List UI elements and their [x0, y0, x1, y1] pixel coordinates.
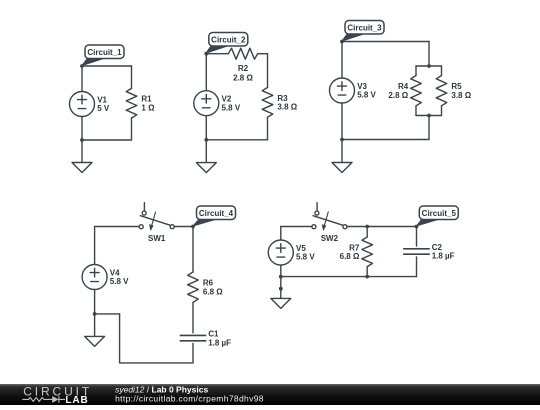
switch SW1 [139, 203, 174, 231]
net label callout Circuit_3 [342, 21, 384, 42]
svg-text:5.8 V: 5.8 V [222, 103, 241, 112]
svg-text:V4: V4 [110, 269, 120, 278]
svg-text:R1: R1 [141, 95, 152, 104]
voltage source V5 [268, 240, 293, 265]
voltage source V1 [70, 92, 95, 117]
wire C5 bottom [281, 276, 417, 278]
svg-text:R2: R2 [238, 64, 249, 73]
wire C5 R7 bottom stub [366, 267, 368, 277]
wire C5 top right [347, 226, 416, 228]
svg-text:1 Ω: 1 Ω [141, 103, 155, 112]
resistor R5 [436, 76, 447, 106]
ground GND5 [271, 289, 291, 309]
wire C3 top [342, 41, 429, 43]
net label callout Circuit_5 [417, 206, 459, 226]
wire C2 left rail [205, 54, 207, 140]
svg-text:V3: V3 [357, 82, 367, 91]
svg-text:6.8 Ω: 6.8 Ω [340, 252, 360, 261]
svg-text:6.8 Ω: 6.8 Ω [203, 287, 223, 296]
svg-text:Circuit_1: Circuit_1 [87, 48, 122, 57]
svg-text:C1: C1 [208, 330, 219, 339]
ground GND2 [196, 140, 216, 173]
node C4 ground junction [93, 312, 97, 316]
svg-text:LAB: LAB [65, 395, 88, 405]
node C5 R7 bottom junction [365, 275, 369, 279]
wire C1 top [82, 65, 132, 67]
node C5 C2 top junction [415, 225, 419, 229]
net label callout Circuit_2 [206, 33, 248, 54]
svg-text:Circuit_3: Circuit_3 [347, 24, 382, 33]
node C1 bottom-left junction [80, 138, 84, 142]
node C2 top-left junction [204, 52, 208, 56]
wire C3 parallel top branch [416, 65, 442, 67]
wire C4 return riser [119, 314, 121, 363]
wire C3 bottom [342, 139, 429, 141]
svg-text:R5: R5 [451, 82, 462, 91]
svg-text:SW2: SW2 [321, 234, 339, 243]
ground GND3 [332, 140, 352, 173]
node C1 top-left junction [80, 64, 84, 68]
svg-text:3.8 Ω: 3.8 Ω [451, 91, 471, 100]
wire C2 right bottom stub [267, 117, 269, 140]
wire C1 left rail [81, 66, 83, 140]
resistor R4 [411, 76, 422, 106]
ground GND1 [72, 140, 92, 173]
node C5 ground junction [279, 287, 283, 291]
wire C4 right rail upper [192, 227, 194, 273]
net label callout Circuit_1 [82, 45, 124, 66]
wire C4 left rail [94, 227, 96, 314]
wire C3 R5 bottom stub [441, 106, 443, 116]
resistor R7 [362, 237, 373, 267]
wire C1 right top stub [131, 66, 133, 88]
ground GND4 [85, 314, 105, 347]
wire C2 bottom [206, 139, 267, 141]
svg-text:V2: V2 [222, 95, 232, 104]
svg-text:C2: C2 [432, 243, 443, 252]
wire C4 R6-C1 link [192, 302, 194, 333]
svg-text:Circuit_4: Circuit_4 [199, 209, 234, 218]
wire C3 parallel bottom branch [416, 115, 442, 117]
svg-text:V5: V5 [296, 244, 306, 253]
wire C1 bottom [82, 139, 132, 141]
svg-text:5 V: 5 V [97, 104, 110, 113]
node C3 parallel bottom junction [427, 114, 431, 118]
wire C4 top right [174, 226, 193, 228]
svg-text:R7: R7 [349, 243, 360, 252]
wire C3 right rail upper [428, 42, 430, 67]
voltage source V3 [330, 78, 355, 103]
voltage source V2 [194, 91, 219, 116]
wire C5 left rail [280, 227, 282, 289]
node C5 left bottom junction [279, 275, 283, 279]
svg-text:R3: R3 [277, 94, 288, 103]
wire C5 R7 top stub [366, 227, 368, 238]
net label callout Circuit_4 [193, 206, 236, 226]
wire C3 R4 top stub [415, 66, 417, 76]
svg-text:5.8 V: 5.8 V [110, 277, 129, 286]
svg-text:5.8 V: 5.8 V [296, 253, 315, 262]
svg-text:Circuit_2: Circuit_2 [211, 36, 246, 45]
node C4 switch-right junction [191, 225, 195, 229]
svg-text:2.8 Ω: 2.8 Ω [388, 91, 408, 100]
node C2 bottom-left junction [204, 138, 208, 142]
CircuitLab logo resistor-diode glyph [22, 396, 65, 403]
wire C4 below C1 [192, 344, 194, 363]
capacitor C2 [403, 249, 430, 254]
svg-text:R6: R6 [203, 279, 214, 288]
resistor R6 [188, 272, 199, 302]
svg-text:2.8 Ω: 2.8 Ω [233, 74, 253, 83]
wire C3 R4 bottom stub [415, 106, 417, 116]
switch SW2 [312, 203, 347, 231]
svg-text:1.8 µF: 1.8 µF [208, 338, 231, 347]
resistor R3 [262, 88, 273, 118]
wire C4 bottom [120, 362, 193, 364]
wire C2 top left [206, 53, 228, 55]
svg-text:1.8 µF: 1.8 µF [432, 252, 455, 261]
node C3 parallel top junction [427, 64, 431, 68]
wire C5 C2 bottom stub [416, 257, 418, 277]
capacitor C1 [180, 335, 207, 340]
svg-text:V1: V1 [97, 96, 107, 105]
wire C2 top right [258, 53, 268, 55]
wire C4 node-riser link [95, 313, 120, 315]
svg-text:http://circuitlab.com/crpemh78: http://circuitlab.com/crpemh78dhv98 [115, 393, 264, 403]
svg-text:3.8 Ω: 3.8 Ω [277, 103, 297, 112]
wire C3 right rail lower [428, 116, 430, 140]
svg-text:Circuit_5: Circuit_5 [422, 209, 457, 218]
wire C3 left rail [341, 42, 343, 140]
wire C5 top left [281, 226, 312, 228]
node C5 R7 top junction [365, 225, 369, 229]
svg-text:5.8 V: 5.8 V [357, 91, 376, 100]
node C3 top-left junction [340, 40, 344, 44]
wire C1 right bottom stub [131, 118, 133, 140]
node C3 bottom-left junction [340, 138, 344, 142]
wire C5 C2 top stub [416, 227, 418, 247]
voltage source V4 [82, 265, 107, 290]
wire C4 top left [95, 226, 140, 228]
wire C3 R5 top stub [441, 66, 443, 76]
resistor R2 [228, 48, 257, 59]
resistor R1 [126, 88, 137, 118]
svg-text:SW1: SW1 [148, 234, 166, 243]
svg-text:R4: R4 [398, 82, 409, 91]
wire C2 right top stub [267, 54, 269, 88]
